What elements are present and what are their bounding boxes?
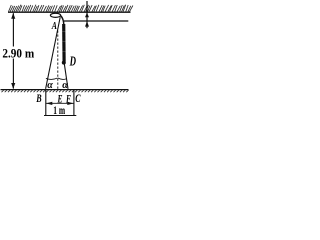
height dimension line xyxy=(12,13,14,88)
plank line xyxy=(64,20,128,22)
svg-text:B: B xyxy=(36,91,42,105)
label 2.90 m background xyxy=(1,47,37,59)
1m right arrowhead xyxy=(67,102,73,105)
height dimension up arrowhead xyxy=(11,13,15,19)
svg-text:F: F xyxy=(65,91,71,105)
chain link notches xyxy=(62,32,66,52)
chain bar xyxy=(62,24,66,62)
left base tick at B xyxy=(45,90,47,115)
gap dimension arrowhead lower xyxy=(85,21,89,26)
ring at A xyxy=(50,13,60,17)
chain bottom blob xyxy=(62,61,66,65)
gap dimension arrowhead upper xyxy=(85,13,89,17)
svg-text:α: α xyxy=(62,80,68,91)
ceiling hatching xyxy=(9,5,133,12)
dashed vertical line A to E xyxy=(57,31,59,89)
chain top curve xyxy=(61,16,64,25)
svg-text:A: A xyxy=(51,20,57,32)
svg-text:1 m: 1 m xyxy=(53,105,65,117)
1m left arrowhead xyxy=(46,102,52,105)
bottom connector line xyxy=(44,115,76,117)
svg-text:C: C xyxy=(75,91,81,105)
string AB (left) xyxy=(46,17,61,89)
svg-text:E: E xyxy=(57,91,63,105)
ground line xyxy=(1,89,129,91)
svg-text:α: α xyxy=(47,80,53,91)
angle arc right xyxy=(58,78,67,79)
svg-text:D: D xyxy=(69,54,76,69)
right base tick at C xyxy=(73,90,75,115)
angle arc left xyxy=(46,78,58,79)
gap dimension line xyxy=(86,1,88,28)
1m dimension arrow line xyxy=(46,102,74,104)
ceiling line xyxy=(8,11,131,13)
height dimension down arrowhead xyxy=(11,83,15,89)
svg-text:2.90 m: 2.90 m xyxy=(2,46,34,60)
string below D to F xyxy=(64,63,68,89)
ground hatching xyxy=(2,90,129,92)
